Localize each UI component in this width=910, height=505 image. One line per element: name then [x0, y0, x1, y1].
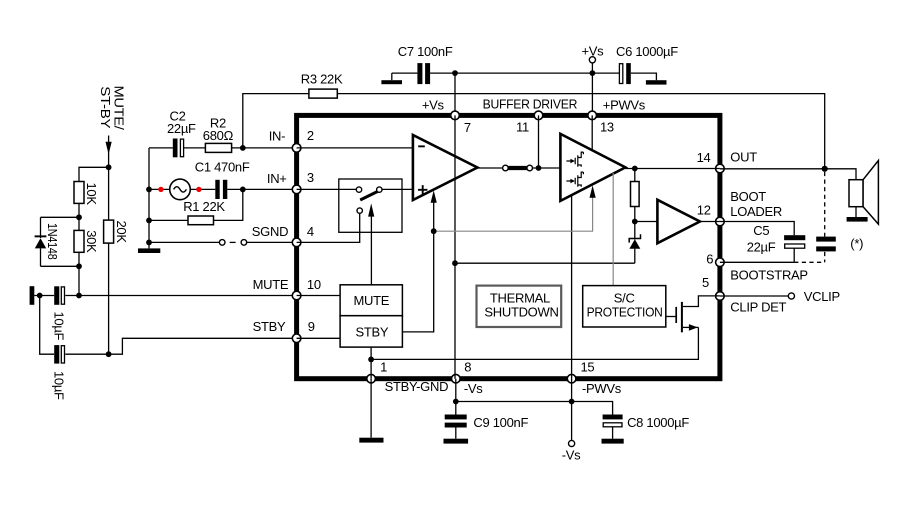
wire diode branch top	[41, 216, 80, 218]
svg-text:CLIP DET: CLIP DET	[730, 300, 786, 315]
wire pin 3 to switch contact	[297, 188, 357, 190]
node junction caps	[37, 293, 43, 299]
wire pin 8 down	[455, 379, 457, 415]
pin 10	[292, 277, 321, 300]
wire switch to op-amp non-inverting input	[382, 188, 413, 190]
svg-text:22µF: 22µF	[167, 121, 196, 136]
node junction arrow/10K/20K	[106, 164, 112, 170]
svg-text:2: 2	[307, 128, 314, 143]
pin 6	[706, 252, 724, 267]
pin 8	[452, 360, 472, 383]
wire feedback line (IN- to OUT)	[243, 94, 309, 148]
buffer driver triangle	[560, 134, 625, 201]
svg-text:10: 10	[307, 277, 321, 292]
node MUTE/ST-BY input label	[98, 86, 127, 131]
wire S/C protection sense (grey)	[612, 173, 614, 286]
svg-text:4: 4	[307, 224, 314, 239]
wire pin 15 to -Vs terminal	[571, 379, 573, 441]
pin 4	[292, 224, 314, 247]
svg-text:ST-BY: ST-BY	[98, 86, 113, 129]
ground (C7 left)	[381, 73, 402, 84]
svg-text:MUTE: MUTE	[354, 293, 390, 308]
wire C2 to R2	[184, 147, 206, 149]
pin 13	[588, 111, 614, 135]
svg-text:R1 22K: R1 22K	[183, 199, 225, 214]
svg-text:12: 12	[697, 203, 711, 218]
wire link dash	[230, 241, 236, 243]
node junction OUT/feedback	[822, 166, 828, 172]
op-amp U1 input buffer	[413, 135, 478, 200]
svg-text:BOOT: BOOT	[730, 189, 766, 204]
capacitor C8 1000uF	[603, 415, 690, 439]
node link circle left	[219, 240, 225, 246]
svg-text:STBY: STBY	[253, 319, 286, 334]
resistor (internal, output divider)	[631, 182, 640, 207]
node junction bus/zener line	[452, 260, 458, 266]
wire +Vs/-Vs bus through IC (pin 7 to pin 8)	[454, 115, 456, 378]
wire link to buffer driver input	[533, 167, 561, 169]
svg-text:BUFFER DRIVER: BUFFER DRIVER	[483, 97, 577, 112]
node junction rail/IN+	[146, 187, 152, 193]
wire internal ground line	[371, 327, 698, 359]
capacitor 10uF (lower)	[51, 345, 66, 400]
wire SGND to pin 4	[247, 241, 297, 243]
wire IN+ row source segment	[149, 188, 215, 190]
svg-text:C5: C5	[753, 223, 769, 238]
wire 30K bottom junction	[78, 252, 80, 295]
box THERMAL SHUTDOWN	[477, 286, 562, 327]
svg-text:20K: 20K	[114, 221, 129, 244]
svg-text:S/C: S/C	[614, 290, 635, 305]
svg-text:9: 9	[308, 319, 315, 334]
wire feedback line right	[337, 94, 824, 169]
svg-text:SGND: SGND	[252, 224, 288, 239]
capacitor C9 100nF	[445, 415, 529, 439]
wire +Vs branch above pin 13	[591, 73, 593, 115]
wire input rail (left of C2/source)	[148, 148, 150, 249]
wire mute control to buffer (grey)	[434, 185, 596, 231]
svg-text:5: 5	[702, 275, 709, 290]
capacitor C6 1000uF	[616, 44, 678, 84]
wire cap branch down	[40, 296, 55, 355]
wire pin 5 to VCLIP	[720, 295, 788, 297]
svg-text:7: 7	[464, 120, 471, 135]
wire pin 13 to buffer driver	[591, 115, 593, 150]
svg-text:15: 15	[581, 360, 595, 375]
diode 1N4148	[35, 217, 60, 266]
svg-text:C1 470nF: C1 470nF	[195, 160, 250, 175]
wire R1 row	[149, 219, 188, 221]
pin 11	[516, 111, 543, 135]
pin 5	[702, 275, 724, 301]
resistor R3 22K	[301, 71, 343, 98]
capacitor optional (*)	[816, 236, 863, 251]
ground (pin 1)	[359, 438, 383, 443]
pin 2	[292, 128, 314, 152]
wire pin 10 to MUTE box	[297, 295, 341, 297]
svg-text:30K: 30K	[84, 230, 99, 253]
svg-text:C7 100nF: C7 100nF	[398, 44, 453, 59]
transistor glyph lower (inside buffer)	[566, 172, 583, 187]
capacitor C1 470nF	[195, 160, 250, 200]
pin 7	[451, 111, 471, 135]
svg-text:3: 3	[307, 170, 314, 185]
svg-text:C9 100nF: C9 100nF	[473, 415, 528, 430]
wire -Vs rail to C8	[456, 402, 613, 415]
svg-text:-Vs: -Vs	[562, 448, 581, 463]
wire op-amp output to link	[477, 167, 502, 169]
node junction pin11/link	[536, 165, 542, 171]
box S/C PROTECTION	[583, 286, 666, 327]
node junction resistor/zener/loader	[632, 219, 638, 225]
wire pin 11 down to link node	[538, 115, 540, 168]
svg-text:1N4148: 1N4148	[45, 223, 60, 260]
capacitor C5 22uF	[747, 223, 806, 262]
wire pin 12 to C5	[720, 222, 794, 236]
svg-text:R3 22K: R3 22K	[301, 71, 343, 86]
wire pin 14 to speaker (OUT)	[720, 169, 856, 180]
node junction pin8/-Vs rail	[453, 399, 459, 405]
node junction 10K/30K/diode	[76, 214, 82, 220]
wire pin 9 to STBY box	[297, 337, 341, 339]
IC body TDA outline	[297, 115, 720, 378]
wire resistor to node	[634, 207, 636, 240]
wire C6 to ground	[631, 73, 657, 80]
wire node to boot loader triangle	[635, 221, 658, 223]
wire 20K rail	[108, 167, 110, 354]
wire zener to bus	[455, 262, 635, 264]
source sine generator	[170, 179, 191, 200]
wire boot loader to pin 12	[700, 221, 720, 223]
switch box	[339, 179, 402, 232]
zener diode (internal)	[629, 234, 640, 263]
svg-text:LOADER: LOADER	[730, 204, 782, 219]
capacitor 10uF (upper)	[51, 286, 66, 340]
wire standby control to op-amp	[402, 190, 436, 332]
svg-text:SHUTDOWN: SHUTDOWN	[484, 304, 558, 319]
ground (C8)	[602, 439, 624, 444]
svg-text:IN+: IN+	[267, 171, 287, 186]
pin 9	[292, 319, 314, 343]
wire buffer output to pin 14	[625, 168, 720, 170]
pin 15	[567, 360, 594, 383]
wire pin 1 to ground	[370, 379, 372, 438]
wire STBY row to pin 9	[65, 338, 296, 354]
svg-text:IN-: IN-	[269, 129, 285, 144]
svg-text:680Ω: 680Ω	[203, 128, 234, 143]
op-amp boot loader driver	[657, 200, 700, 243]
wire C7 to +Vs node	[430, 72, 619, 74]
svg-text:6: 6	[706, 252, 713, 267]
ground (left, rotated bar)	[30, 286, 35, 305]
node junction 30K/diode	[76, 263, 82, 269]
wire diode branch bottom	[41, 265, 80, 267]
ground (speaker)	[847, 217, 868, 222]
svg-text:22µF: 22µF	[747, 239, 776, 254]
node junction IN+/R1	[240, 187, 246, 193]
transistor glyph upper (inside buffer)	[566, 152, 583, 167]
resistor 30K	[74, 230, 99, 253]
svg-text:13: 13	[600, 120, 614, 135]
resistor R1 22K	[183, 199, 225, 225]
svg-text:VCLIP: VCLIP	[804, 289, 840, 304]
box STBY	[340, 316, 402, 347]
wire pin 6 bootstrap	[720, 261, 794, 263]
wire C2 row	[149, 147, 173, 149]
ground (input rail)	[138, 248, 160, 253]
svg-text:OUT: OUT	[730, 149, 757, 164]
ground (C6 right)	[646, 80, 667, 84]
pin 1	[367, 360, 387, 383]
svg-text:BOOTSTRAP: BOOTSTRAP	[730, 267, 807, 282]
pin 14	[697, 150, 725, 173]
wire pin 2 to op-amp inverting input	[297, 147, 413, 149]
wire pin 15 to output stage	[571, 193, 573, 378]
wire R1 to IN+ node	[214, 189, 243, 220]
node link circle right	[241, 240, 247, 246]
svg-text:C8 1000µF: C8 1000µF	[627, 415, 689, 430]
svg-text:11: 11	[516, 120, 529, 135]
box MUTE	[340, 285, 402, 316]
terminal VCLIP	[788, 289, 840, 304]
wire ground to C7	[392, 72, 418, 74]
svg-text:(*): (*)	[850, 236, 863, 251]
node junction +Vs/pin13	[590, 70, 596, 76]
wire +Vs bus above pin 7	[454, 73, 456, 115]
svg-text:+Vs: +Vs	[422, 98, 445, 113]
wire ground to C10	[34, 295, 54, 297]
node junction chain/MUTE row	[76, 293, 82, 299]
link jumper (open circle, bar, open circle)	[503, 165, 533, 171]
node junction 20K bottom	[106, 351, 112, 357]
svg-text:8: 8	[464, 360, 471, 375]
node junction output/resistor	[632, 166, 638, 172]
svg-text:MUTE: MUTE	[253, 277, 289, 292]
svg-text:-Vs: -Vs	[464, 381, 483, 396]
svg-text:C6 1000µF: C6 1000µF	[616, 44, 678, 59]
svg-text:-PWVs: -PWVs	[582, 381, 622, 396]
svg-text:STBY: STBY	[356, 325, 389, 340]
wire switch lower contact to pin 4	[297, 213, 360, 242]
svg-text:10µF: 10µF	[51, 312, 66, 341]
node red dot (source left)	[158, 187, 163, 192]
node junction rail/SGND	[146, 240, 152, 246]
svg-text:PROTECTION: PROTECTION	[587, 304, 663, 319]
node junction C7/pin7 bus	[452, 70, 458, 76]
node junction IN-/feedback	[240, 145, 246, 151]
svg-text:+Vs: +Vs	[582, 44, 605, 59]
ground (C9)	[444, 439, 469, 444]
switch mute contacts and lever	[356, 187, 382, 213]
node junction stby-gnd rail	[368, 357, 374, 363]
wire STBY box to pin 1	[370, 347, 372, 379]
svg-text:STBY-GND: STBY-GND	[385, 379, 449, 394]
node junction pin15/-Vs rail	[569, 399, 575, 405]
wire dashed optional cap branch	[794, 172, 825, 262]
pin 12	[697, 203, 724, 226]
wire MUTE row to pin 10	[65, 295, 296, 297]
pin 3	[292, 170, 314, 194]
terminal +Vs	[582, 44, 605, 73]
node junction rail/R1	[146, 218, 152, 224]
terminal -Vs	[562, 440, 581, 462]
wire 10K to 30K	[78, 203, 80, 230]
wire R2 to pin 2	[232, 147, 297, 149]
node red dot (source right)	[196, 187, 201, 192]
svg-text:1: 1	[380, 360, 387, 375]
svg-text:10µF: 10µF	[51, 371, 66, 400]
svg-text:+PWVs: +PWVs	[603, 98, 646, 113]
svg-text:THERMAL: THERMAL	[490, 290, 550, 305]
wire SGND row left	[149, 241, 219, 243]
resistor 20K	[104, 220, 129, 243]
wire MUTE/ST-BY input with arrow	[106, 136, 112, 168]
node junction standby/mute control	[431, 228, 437, 234]
wire resistor top lead	[634, 169, 636, 182]
capacitor C7 100nF	[398, 44, 453, 84]
svg-text:10K: 10K	[84, 183, 99, 206]
wire mute box to switch (arrow)	[368, 203, 374, 284]
svg-text:14: 14	[697, 150, 711, 165]
label BOOT LOADER	[730, 189, 782, 219]
resistor 10K	[74, 182, 99, 206]
capacitor C2 22uF	[167, 109, 196, 158]
resistor R2 680ohm	[203, 115, 234, 152]
wire junction to 10K top	[79, 167, 109, 181]
transistor Q1 clip detector	[666, 296, 720, 332]
speaker	[849, 161, 878, 225]
wire C1 to pin 3	[227, 188, 296, 190]
